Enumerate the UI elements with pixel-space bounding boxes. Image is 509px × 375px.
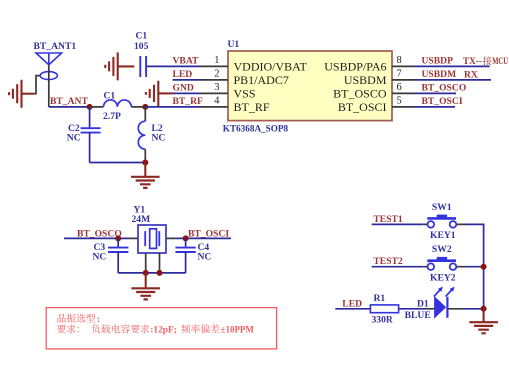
inductor L2 NC	[138, 107, 165, 163]
wire USBDM net	[414, 79, 491, 81]
svg-text:KT6368A_SOP8: KT6368A_SOP8	[223, 124, 289, 134]
svg-text:VBAT: VBAT	[173, 56, 200, 67]
svg-text:RX: RX	[464, 70, 478, 81]
svg-text:D1: D1	[417, 298, 429, 309]
svg-text:8: 8	[397, 55, 402, 66]
LED D1 BLUE	[405, 287, 455, 321]
wire D1 to bus	[447, 308, 463, 310]
svg-text:4: 4	[214, 96, 220, 107]
wire TEST2 net	[372, 266, 424, 268]
svg-text:6: 6	[397, 82, 402, 93]
svg-text:MCU: MCU	[492, 56, 508, 66]
svg-text:BT_OSCI: BT_OSCI	[338, 100, 387, 114]
svg-text:USBDP/PA6: USBDP/PA6	[324, 60, 386, 74]
svg-text:BT_OSCO: BT_OSCO	[77, 228, 122, 239]
wire LED net	[335, 308, 370, 310]
svg-text:LED: LED	[342, 298, 362, 309]
svg-text:3: 3	[214, 82, 219, 93]
svg-text:VSS: VSS	[234, 87, 256, 101]
svg-text:±10PPM: ±10PPM	[221, 325, 255, 335]
svg-text:2: 2	[214, 69, 219, 80]
switch SW1 KEY1	[423, 202, 466, 241]
svg-text:7: 7	[397, 69, 402, 80]
wire crystal bottom bus	[118, 272, 185, 274]
capacitor C1 105	[134, 31, 149, 77]
ground (GND pin)	[146, 81, 173, 106]
svg-text:R1: R1	[374, 293, 386, 304]
svg-text:NC: NC	[152, 132, 166, 143]
wire C2/L2 bottom	[90, 162, 146, 164]
svg-text::: :	[97, 315, 100, 325]
svg-text:BT_OSCO: BT_OSCO	[333, 87, 387, 101]
svg-text:24M: 24M	[132, 214, 151, 225]
svg-text:BLUE: BLUE	[405, 310, 431, 321]
node L2 bottom	[142, 160, 148, 166]
wire VBAT net	[146, 65, 200, 67]
svg-text:BT_RF: BT_RF	[173, 96, 204, 107]
svg-text:USBDM: USBDM	[422, 69, 457, 80]
wire crystal to BT_OSCI	[175, 237, 231, 239]
svg-text::12pF;: :12pF;	[150, 326, 177, 336]
svg-text:NC: NC	[93, 252, 107, 263]
ground (RF network)	[131, 163, 160, 188]
node bus/LED	[481, 306, 487, 312]
svg-text:TEST1: TEST1	[373, 214, 403, 225]
wire antenna to ground	[34, 76, 40, 94]
capacitor C4 NC	[175, 238, 211, 273]
node B (BT_RF junction)	[142, 104, 148, 110]
wire BT_ANT net	[49, 106, 90, 108]
svg-text:USBDM: USBDM	[344, 73, 387, 87]
svg-text:LED: LED	[173, 69, 193, 80]
svg-text:BT_RF: BT_RF	[234, 100, 270, 114]
resistor R1 330R	[370, 293, 398, 326]
capacitor C2 NC	[67, 107, 101, 163]
node bus/TEST2	[481, 264, 487, 270]
svg-text:1: 1	[214, 55, 219, 66]
wire BT_OSCO to crystal	[64, 237, 129, 239]
wire SW2 to bus	[466, 267, 484, 309]
svg-text:105: 105	[134, 41, 149, 52]
svg-text:VDDIO/VBAT: VDDIO/VBAT	[234, 60, 308, 74]
svg-text:2.7P: 2.7P	[103, 111, 121, 122]
svg-text:NC: NC	[67, 132, 81, 143]
wire BT_OSCI net (right)	[414, 106, 455, 108]
wire BT_RF net	[145, 106, 200, 108]
svg-text:NC: NC	[198, 252, 212, 263]
switch SW2 KEY2	[423, 244, 466, 283]
IC U1 KT6368A_SOP8	[200, 39, 414, 134]
wire LED net	[173, 79, 201, 81]
svg-text:U1: U1	[228, 39, 240, 50]
antenna BT_ANT1	[34, 41, 77, 107]
wire BT_OSCO net (right)	[414, 92, 456, 94]
node A (BT_ANT junction)	[87, 104, 93, 110]
ground (crystal)	[131, 273, 160, 300]
crystal Y1 24M	[129, 204, 175, 273]
svg-text:SW1: SW1	[432, 202, 452, 213]
svg-text:GND: GND	[173, 83, 194, 94]
svg-text:BT_OSCI: BT_OSCI	[188, 228, 229, 239]
svg-text:PB1/ADC7: PB1/ADC7	[234, 73, 289, 87]
wire USBDP net	[414, 65, 490, 67]
ground (antenna feed)	[9, 80, 34, 108]
wire GND net	[173, 92, 201, 94]
svg-text:TX--: TX--	[463, 56, 482, 66]
svg-text:TEST2: TEST2	[373, 256, 403, 267]
net label USBDM, RX	[422, 69, 478, 80]
svg-text:BT_OSCI: BT_OSCI	[422, 96, 463, 107]
svg-text:BT_ANT1: BT_ANT1	[34, 41, 77, 52]
net label USBDP, TX--接MCU	[422, 56, 509, 67]
note: crystal selection requirements	[46, 308, 276, 349]
ground (keys/LED)	[469, 309, 498, 334]
svg-text:KEY1: KEY1	[430, 230, 456, 241]
node crystal gnd 1	[143, 270, 149, 276]
capacitor C1 2.7P (series element)	[90, 91, 146, 122]
svg-text:BT_OSCO: BT_OSCO	[422, 83, 467, 94]
svg-text:5: 5	[397, 96, 402, 107]
wire R1 to D1	[399, 308, 424, 310]
wire SW1 to bus	[466, 224, 484, 266]
svg-text:330R: 330R	[372, 315, 394, 326]
svg-text:USBDP: USBDP	[422, 56, 454, 67]
capacitor C3 NC	[93, 238, 129, 273]
svg-text:BT_ANT: BT_ANT	[50, 96, 88, 107]
svg-text:KEY2: KEY2	[430, 273, 456, 284]
node crystal right	[183, 235, 189, 241]
node crystal gnd 2	[157, 270, 163, 276]
ground (VBAT decoupling)	[105, 52, 134, 80]
svg-text:SW2: SW2	[432, 244, 452, 255]
node crystal left	[115, 235, 121, 241]
wire TEST1 net	[372, 223, 424, 225]
